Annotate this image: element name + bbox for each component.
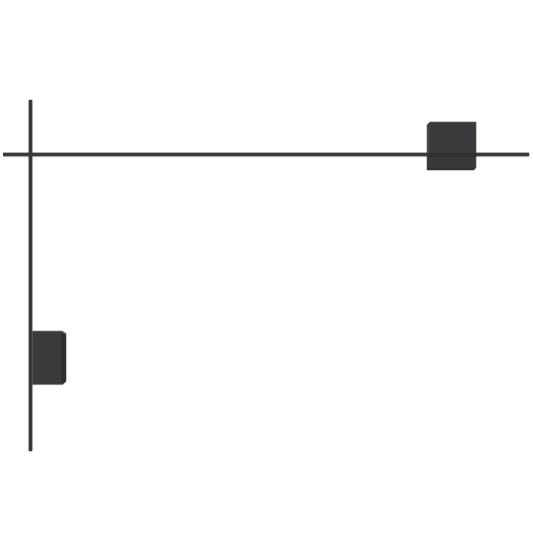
- chamfer shadow top-left: [427, 122, 431, 126]
- left lit edge of right head: [427, 122, 432, 170]
- line band crossing right head: [427, 153, 476, 157]
- wire: vertical stem of wall lamp: [28, 100, 33, 452]
- lit top edge of side face: [62, 331, 66, 335]
- node B: left lamp head (box on vertical stem): [32, 331, 66, 384]
- right side face of left head: [62, 331, 66, 384]
- lower lip of right head: [427, 157, 475, 168]
- node A: right lamp head (box on horizontal arm): [427, 122, 476, 170]
- bottom shade edge of right head: [427, 168, 475, 170]
- wire: horizontal arm of wall lamp: [3, 152, 529, 157]
